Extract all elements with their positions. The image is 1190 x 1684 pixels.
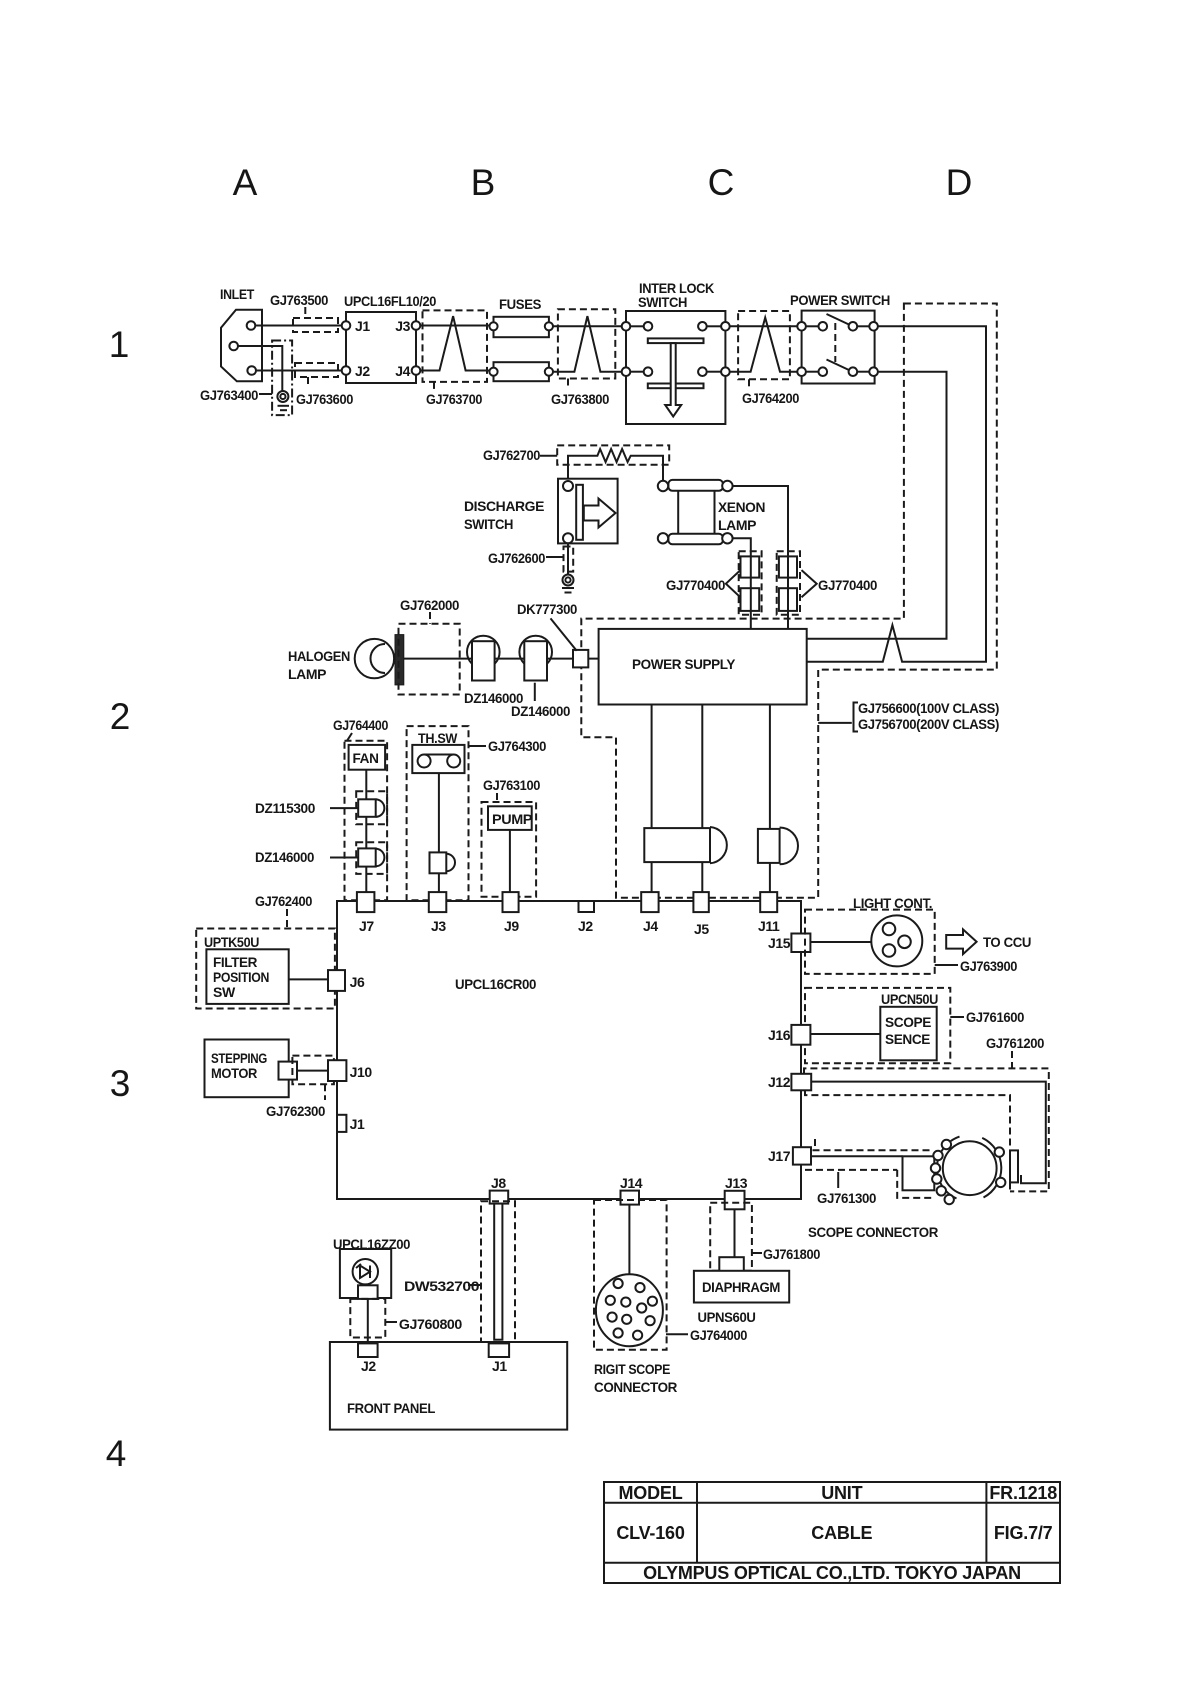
svg-text:3: 3: [110, 1063, 131, 1104]
wire power switch bottom to power supply: [807, 372, 947, 639]
svg-text:SW: SW: [213, 984, 236, 1000]
wire pump to J9: [509, 830, 511, 893]
wire inlet pin2 to earth: [238, 346, 282, 391]
wire fuse2 to interlock with twist: [553, 316, 622, 372]
svg-text:GJ764200: GJ764200: [742, 390, 800, 406]
svg-text:J13: J13: [725, 1175, 748, 1191]
interlock pin top-right outer: [721, 322, 730, 331]
wire xenon bottom to power supply: [733, 538, 751, 629]
stepping motor connector: [279, 1062, 298, 1080]
svg-text:J7: J7: [359, 918, 374, 934]
connector J12: [768, 1074, 811, 1091]
svg-text:HALOGEN: HALOGEN: [288, 648, 350, 664]
cable GJ763500: [270, 292, 338, 332]
xenon lamp node bottom-right: [722, 533, 732, 543]
svg-text:SCOPE CONNECTOR: SCOPE CONNECTOR: [808, 1224, 938, 1240]
svg-text:GJ763600: GJ763600: [296, 391, 354, 407]
svg-text:J1: J1: [355, 318, 370, 334]
rigit scope connector dashed box: [594, 1200, 667, 1350]
wire xenon top to power supply: [733, 486, 788, 629]
lamp unit UPCL16ZZ00: [333, 1236, 411, 1298]
svg-text:GJ763900: GJ763900: [960, 958, 1018, 974]
scope sense cable UPCN50U dashed: [805, 988, 950, 1063]
inlet pin 2: [229, 342, 238, 351]
xenon lamp node top-right: [722, 481, 732, 491]
connector J14: [620, 1175, 643, 1205]
cable GJ761300 dashes: [805, 1139, 932, 1206]
svg-text:GJ761800: GJ761800: [763, 1246, 821, 1262]
svg-text:GJ770400: GJ770400: [818, 577, 878, 593]
wire J17 to scope connector box: [811, 1155, 903, 1157]
connector J1 front panel: [489, 1343, 509, 1374]
front panel: [330, 1342, 567, 1430]
svg-text:J16: J16: [768, 1027, 791, 1043]
svg-text:FAN: FAN: [353, 750, 379, 766]
interlock pin top-right inner: [698, 322, 721, 331]
svg-text:PUMP: PUMP: [492, 811, 532, 827]
pin J4: [395, 363, 420, 379]
wire J15 to light cont: [810, 941, 871, 943]
xenon lamp node bottom-left: [658, 533, 668, 543]
svg-text:STEPPING: STEPPING: [211, 1050, 267, 1066]
svg-text:GJ761300: GJ761300: [817, 1190, 877, 1206]
discharge switch node bottom: [563, 533, 573, 543]
svg-text:GJ763100: GJ763100: [483, 777, 541, 793]
inlet connector: [220, 286, 262, 381]
svg-text:DZ146000: DZ146000: [511, 703, 571, 719]
connector J5 board: [693, 892, 709, 937]
filter position switch: [206, 949, 288, 1004]
connector block J11: [758, 828, 798, 865]
connector J10: [328, 1060, 372, 1081]
svg-text:J5: J5: [694, 921, 709, 937]
wire interlock to powerswitch bottom: [730, 318, 798, 372]
svg-text:GJ763500: GJ763500: [270, 292, 329, 308]
discharge switch bar: [576, 485, 583, 540]
svg-text:CABLE: CABLE: [811, 1523, 872, 1543]
wire left to DZ146000: [330, 857, 358, 859]
svg-text:SENCE: SENCE: [885, 1031, 930, 1047]
svg-text:GJ764300: GJ764300: [488, 738, 547, 754]
svg-text:POWER SUPPLY: POWER SUPPLY: [632, 656, 736, 672]
filter unit UPCL16FL10/20: [344, 293, 437, 383]
cable DW532700 core: [494, 1204, 502, 1340]
wire J12 to scope connector: [811, 1082, 1046, 1184]
svg-text:J8: J8: [491, 1175, 506, 1191]
light controller connector face: [871, 915, 922, 966]
svg-text:LAMP: LAMP: [288, 666, 326, 682]
connector block J4/J5: [644, 827, 727, 863]
svg-text:GJ763700: GJ763700: [426, 391, 483, 407]
wire J3 to fuse1: [420, 325, 493, 327]
cable GJ761800: [710, 1203, 820, 1271]
svg-text:GJ762600: GJ762600: [488, 550, 546, 566]
rigit scope connector face: [596, 1274, 663, 1346]
discharge switch node top: [563, 481, 573, 491]
fuse F1: [489, 317, 553, 337]
cable GJ763400 earth lead: [200, 341, 292, 416]
interlock pin bot-right outer: [721, 367, 730, 376]
svg-text:CLV-160: CLV-160: [616, 1523, 684, 1543]
svg-text:TO CCU: TO CCU: [983, 934, 1031, 950]
connector under lamp unit: [358, 1285, 378, 1299]
inlet pin 3: [247, 366, 256, 375]
connector J8: [490, 1175, 509, 1204]
svg-text:J14: J14: [620, 1175, 643, 1191]
wire power supply to J4: [651, 705, 653, 893]
power switch pin top-left: [797, 322, 827, 331]
wire left to DZ115300: [330, 807, 358, 809]
connector J13: [725, 1175, 748, 1209]
svg-text:J2: J2: [578, 918, 593, 934]
wire J13 to diaphragm: [734, 1209, 736, 1271]
cable GJ756600/GJ756700 dashed enclosure: [581, 304, 997, 898]
wire power supply to J5: [701, 705, 703, 893]
svg-text:GJ761600: GJ761600: [966, 1009, 1025, 1025]
wire J4 to fuse2 with twist: [420, 316, 493, 370]
svg-text:J1: J1: [492, 1358, 507, 1374]
svg-text:J4: J4: [395, 363, 410, 379]
svg-text:GJ764000: GJ764000: [690, 1327, 748, 1343]
svg-text:DIAPHRAGM: DIAPHRAGM: [702, 1279, 780, 1295]
power switch: [790, 292, 890, 384]
connector DZ146000 first: [464, 636, 524, 706]
wire th.sw to J3: [438, 773, 440, 892]
LED symbol: [353, 1259, 378, 1284]
svg-text:J2: J2: [361, 1358, 376, 1374]
interlock pin bot-right inner: [698, 367, 721, 376]
svg-text:UNIT: UNIT: [821, 1483, 862, 1503]
wire power switch top to power supply loop: [807, 326, 986, 662]
interlock pin top-left outer: [622, 322, 631, 331]
svg-text:CONNECTOR: CONNECTOR: [594, 1379, 677, 1395]
scope connector left box: [903, 1156, 935, 1190]
wire stepping motor to J10: [297, 1070, 328, 1072]
svg-text:J3: J3: [395, 318, 410, 334]
ground under discharge switch: [562, 575, 574, 593]
connector J9: [503, 892, 520, 934]
svg-text:J12: J12: [768, 1074, 791, 1090]
interlock switch: [626, 280, 725, 424]
cable GJ770400 left: [666, 551, 762, 615]
connector J2 board: [578, 901, 594, 934]
cable GJ760800: [350, 1299, 462, 1338]
fan M1: [349, 745, 386, 770]
cable GJ763800: [551, 309, 615, 407]
connector J7: [357, 892, 375, 934]
GJ764000 label: [666, 1327, 748, 1343]
svg-text:FRONT PANEL: FRONT PANEL: [347, 1400, 436, 1416]
scope connector right box: [1010, 1150, 1018, 1182]
pin J2: [342, 363, 371, 379]
wire inlet pin3 to J2: [256, 370, 342, 372]
resistor: [568, 449, 663, 486]
connector J3: [429, 892, 447, 934]
wire filter sw to J6: [289, 978, 328, 980]
svg-text:C: C: [708, 162, 735, 203]
connector J1 board left: [337, 1115, 365, 1132]
interlock pin bot-left inner: [630, 367, 652, 376]
connector DZ146000 second: [511, 636, 571, 719]
svg-text:UPCL16ZZ00: UPCL16ZZ00: [333, 1236, 411, 1252]
svg-text:2: 2: [110, 696, 131, 737]
svg-text:INLET: INLET: [220, 286, 255, 302]
svg-text:FIG.7/7: FIG.7/7: [994, 1523, 1053, 1543]
connector J17: [768, 1147, 811, 1164]
wire halogen lamp to power supply: [394, 658, 599, 660]
svg-text:4: 4: [106, 1433, 127, 1474]
svg-text:MODEL: MODEL: [619, 1483, 683, 1503]
svg-text:POWER SWITCH: POWER SWITCH: [790, 292, 890, 308]
svg-text:GJ760800: GJ760800: [399, 1316, 463, 1332]
rigit scope connector label: [594, 1361, 677, 1395]
pin J1: [342, 318, 371, 334]
halogen lamp: [288, 639, 394, 682]
connector J15: [768, 934, 810, 953]
svg-text:DK777300: DK777300: [517, 601, 578, 617]
svg-text:UPCL16FL10/20: UPCL16FL10/20: [344, 293, 437, 309]
wire inlet pin1 to J1: [255, 325, 341, 327]
cable GJ762000: [399, 597, 460, 695]
svg-text:GJ761200: GJ761200: [986, 1035, 1045, 1051]
cable GJ763600: [295, 363, 354, 407]
svg-text:J17: J17: [768, 1148, 791, 1164]
xenon lamp node top-left: [658, 481, 668, 491]
svg-text:J11: J11: [758, 918, 780, 934]
svg-text:DZ146000: DZ146000: [255, 849, 315, 865]
svg-text:B: B: [471, 162, 496, 203]
svg-text:LIGHT CONT.: LIGHT CONT.: [853, 895, 932, 911]
svg-text:GJ756600(100V CLASS): GJ756600(100V CLASS): [858, 700, 999, 716]
power switch contact top: [827, 314, 878, 331]
svg-text:J6: J6: [350, 974, 365, 990]
connector on th.sw chain: [430, 852, 455, 873]
interlock pin top-left inner: [630, 322, 652, 331]
svg-text:D: D: [946, 162, 973, 203]
svg-text:J15: J15: [768, 935, 791, 951]
to CCU arrow: [946, 929, 1031, 954]
wire J14 to rigit scope connector: [628, 1204, 630, 1276]
wire lamp unit to J2: [367, 1299, 369, 1344]
GJ756600 labels: [818, 700, 999, 732]
pin J3: [395, 318, 420, 334]
svg-text:J4: J4: [643, 918, 658, 934]
svg-text:TH.SW: TH.SW: [418, 730, 458, 746]
svg-text:SWITCH: SWITCH: [638, 294, 687, 310]
inlet pin 1: [247, 321, 256, 330]
scope connector face: [931, 1137, 1006, 1205]
cable GJ762600: [488, 543, 573, 574]
cable GJ762700 with resistor: [483, 445, 669, 464]
svg-text:UPCL16CR00: UPCL16CR00: [455, 976, 537, 992]
svg-text:GJ762700: GJ762700: [483, 447, 541, 463]
svg-text:SCOPE: SCOPE: [885, 1014, 931, 1030]
svg-text:J3: J3: [431, 918, 446, 934]
svg-text:POSITION: POSITION: [213, 969, 269, 985]
connector DK777300: [517, 601, 588, 667]
svg-text:UPCN50U: UPCN50U: [881, 991, 938, 1007]
svg-text:GJ763400: GJ763400: [200, 387, 259, 403]
svg-text:FUSES: FUSES: [499, 296, 541, 312]
light controller dashed box: [805, 895, 935, 974]
pump M2: [488, 806, 532, 830]
svg-text:DZ115300: DZ115300: [255, 800, 316, 816]
svg-text:XENON: XENON: [718, 499, 765, 515]
svg-text:DISCHARGE: DISCHARGE: [464, 498, 544, 514]
wire interlock to powerswitch top with twist: [730, 325, 802, 327]
svg-text:1: 1: [109, 324, 130, 365]
thermal switch TH.SW: [412, 745, 464, 773]
svg-text:GJ763800: GJ763800: [551, 391, 610, 407]
connector J6: [328, 970, 365, 991]
interlock pin bot-left outer: [622, 367, 631, 376]
cable GJ770400 right: [777, 551, 878, 615]
xenon lamp: [668, 480, 765, 544]
connector J4 board: [641, 892, 658, 934]
wire power supply to J11: [769, 705, 771, 893]
svg-text:GJ770400: GJ770400: [666, 577, 726, 593]
discharge switch: [464, 479, 618, 544]
cable GJ764200: [738, 311, 799, 406]
svg-text:GJ762300: GJ762300: [266, 1103, 326, 1119]
svg-text:GJ764400: GJ764400: [333, 717, 389, 733]
connector above diaphragm: [719, 1257, 744, 1272]
svg-text:UPNS60U: UPNS60U: [698, 1309, 756, 1325]
diaphragm unit: [694, 1271, 789, 1325]
connector J16: [768, 1025, 810, 1045]
power switch link: [834, 323, 836, 362]
cable DW532700 dashed: [404, 1201, 515, 1343]
pump cable GJ763100: [482, 777, 541, 897]
svg-text:LAMP: LAMP: [718, 517, 756, 533]
title block table: [604, 1482, 1060, 1583]
svg-text:RIGIT SCOPE: RIGIT SCOPE: [594, 1361, 670, 1377]
svg-text:GJ756700(200V CLASS): GJ756700(200V CLASS): [858, 716, 999, 732]
svg-text:MOTOR: MOTOR: [211, 1065, 257, 1081]
stepping motor: [205, 1040, 289, 1098]
power supply U1: [599, 629, 807, 705]
svg-text:J9: J9: [504, 918, 519, 934]
svg-text:FR.1218: FR.1218: [989, 1483, 1057, 1503]
wire fan to J7: [365, 770, 367, 893]
wire J16 to scope sense: [810, 1033, 880, 1035]
svg-text:J2: J2: [355, 363, 370, 379]
GJ763900 label: [935, 958, 1018, 974]
power switch contact bottom: [827, 360, 878, 377]
svg-text:FILTER: FILTER: [213, 954, 257, 970]
thermal switch cable: [407, 726, 547, 900]
connector J11 board: [758, 892, 780, 934]
svg-text:GJ762000: GJ762000: [400, 597, 460, 613]
fuse F2: [489, 362, 553, 381]
filter unit UPTK50U dashed: [196, 929, 335, 1009]
fan unit cable GJ764400: [333, 717, 389, 900]
connector DZ115300: [255, 799, 384, 817]
cable GJ763700: [423, 310, 488, 407]
cable GJ762400: [255, 893, 313, 929]
main board UPCL16CR00: [337, 901, 801, 1199]
svg-text:OLYMPUS OPTICAL CO.,LTD. TOKYO: OLYMPUS OPTICAL CO.,LTD. TOKYO JAPAN: [643, 1563, 1021, 1583]
svg-text:J10: J10: [350, 1064, 373, 1080]
svg-text:SWITCH: SWITCH: [464, 516, 513, 532]
svg-text:UPTK50U: UPTK50U: [204, 934, 259, 950]
GJ761600 label: [950, 1009, 1024, 1025]
svg-text:J1: J1: [350, 1116, 365, 1132]
connector J2 front panel: [358, 1343, 378, 1374]
cable GJ762300: [266, 1056, 334, 1119]
scope sense unit: [880, 1007, 936, 1061]
wire fuse1 to interlock: [553, 325, 622, 327]
halogen lamp holder bar: [395, 635, 404, 685]
cable GJ761200 dashed band: [804, 1035, 1049, 1191]
svg-text:GJ762400: GJ762400: [255, 893, 313, 909]
power switch pin bot-left: [797, 367, 827, 376]
svg-text:A: A: [233, 162, 258, 203]
discharge switch arrow: [584, 499, 616, 528]
interlock plunger: [648, 338, 704, 416]
connector DZ146000 fan chain: [255, 848, 384, 866]
ground: [277, 391, 289, 410]
